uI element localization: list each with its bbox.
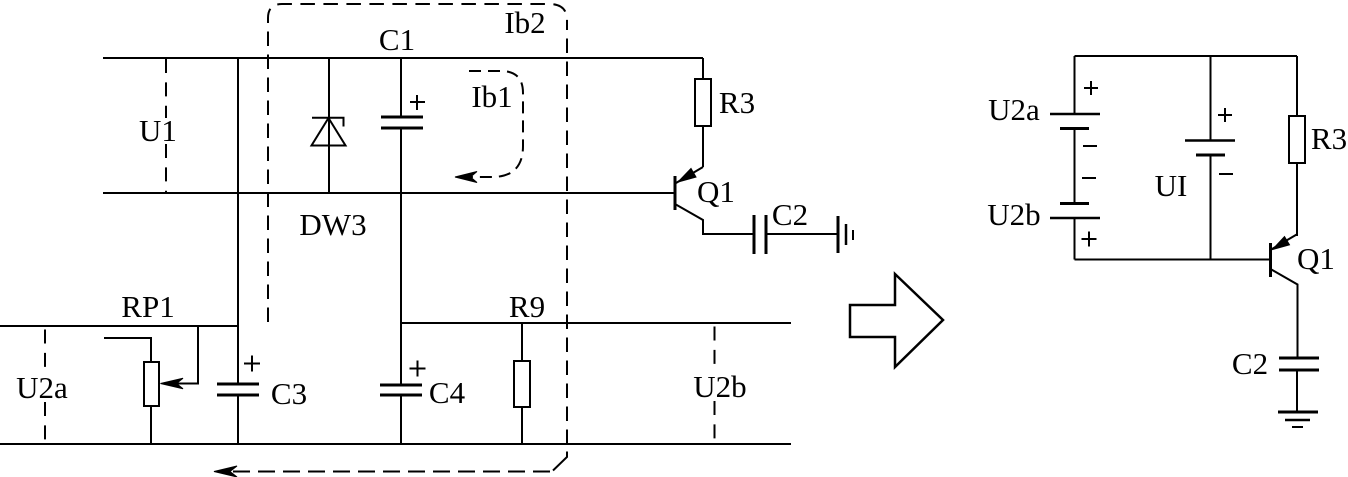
svg-text:Ib1: Ib1 — [471, 79, 512, 114]
battery U2b long plate (right) — [1050, 217, 1100, 220]
capacitor C2 plates (left) — [754, 215, 766, 254]
svg-text:Q1: Q1 — [697, 174, 735, 209]
svg-text:U2b: U2b — [987, 197, 1040, 232]
battery UI minus mark — [1219, 173, 1233, 175]
node Ib2 loop corner below bottom rail — [553, 452, 567, 471]
svg-text:R3: R3 — [1311, 121, 1347, 156]
node Ib2 return arrowhead — [214, 466, 237, 477]
node Ib2 dashed loop right edge — [566, 20, 568, 444]
svg-text:DW3: DW3 — [299, 207, 366, 242]
battery UI short plate — [1196, 154, 1225, 157]
svg-text:U1: U1 — [139, 113, 177, 148]
capacitor C2 plates (right) — [1279, 358, 1319, 370]
wire R3 bottom lead to Q1 collector — [702, 126, 704, 167]
transistor Q1 base bar (right, PNP) — [1269, 243, 1272, 277]
svg-text:UI: UI — [1155, 168, 1188, 203]
node Ib2 bottom dashed return line — [228, 471, 550, 473]
transistor Q1 collector diagonal (right) — [1272, 234, 1298, 249]
wire bottom rail (right circuit) — [1075, 259, 1270, 261]
potentiometer RP1 wiper arrowhead — [161, 378, 184, 389]
wire C2 to ground (right) — [1296, 371, 1298, 412]
transistor Q1 emitter lead (right) — [1271, 269, 1298, 358]
node Ib2 dashed loop box top and sides — [268, 4, 567, 322]
wire middle rail / base net (left circuit) — [103, 192, 674, 194]
wire R9 top lead — [521, 323, 523, 361]
ground middle bar (left) — [845, 224, 848, 245]
node Ib1 arrowhead — [455, 172, 477, 183]
ground top bar (right) — [1278, 411, 1318, 414]
node U2a dashed measurement line (left) — [44, 330, 46, 445]
wire C4 branch bottom — [400, 396, 402, 444]
potentiometer RP1 bottom lead — [150, 406, 152, 444]
svg-text:C4: C4 — [429, 375, 466, 410]
wire bottom return rail (left circuit) — [0, 443, 791, 445]
svg-text:Ib2: Ib2 — [504, 5, 545, 40]
capacitor C4 plates — [380, 385, 422, 395]
battery U2a plus mark — [1084, 81, 1098, 95]
wire UI branch bottom — [1210, 155, 1212, 260]
svg-text:R9: R9 — [509, 289, 545, 324]
svg-text:C3: C3 — [271, 376, 307, 411]
wire R3 top lead (right) — [1296, 56, 1298, 116]
wire C2 to ground (left) — [767, 233, 837, 235]
battery U2a minus mark — [1083, 145, 1097, 147]
svg-text:C2: C2 — [1232, 346, 1268, 381]
wire C1 branch top — [400, 58, 402, 117]
ground long bar (left, sideways) — [837, 216, 840, 253]
wire lower rail right segment (R9 net) — [401, 322, 791, 324]
resistor R3 (right) — [1289, 116, 1305, 163]
ground middle bar (right) — [1285, 419, 1310, 422]
svg-text:C1: C1 — [379, 22, 415, 57]
node U1 dashed measurement line — [165, 59, 167, 193]
wire battery branch (right circuit) — [1074, 56, 1076, 260]
ground short bar (right) — [1292, 426, 1303, 428]
wire R3 bottom lead to Q1 collector (right) — [1296, 163, 1298, 236]
wire R3 top lead (left) — [702, 58, 704, 79]
wire C4 branch top — [400, 193, 402, 385]
transistor Q1 base bar (left, PNP) — [674, 176, 677, 210]
svg-text:R3: R3 — [719, 85, 755, 120]
svg-text:U2a: U2a — [988, 92, 1040, 127]
potentiometer RP1 body — [144, 362, 159, 406]
svg-text:Q1: Q1 — [1297, 241, 1335, 276]
resistor R9 — [514, 361, 530, 407]
potentiometer RP1 top terminal stub — [104, 338, 151, 362]
node Ib1 dashed current loop — [469, 71, 523, 177]
resistor R3 (left) — [695, 79, 711, 126]
battery U2b plus mark — [1082, 232, 1097, 247]
battery U2b minus mark — [1082, 177, 1096, 179]
transistor Q1 emitter lead and output wire (left) — [675, 204, 753, 234]
C1 plus polarity mark — [410, 95, 425, 110]
wire top rail (right circuit) — [1075, 55, 1298, 57]
transistor Q1 emitter arrowhead (left) — [678, 169, 696, 183]
potentiometer RP1 wiper wire — [168, 326, 198, 384]
big block arrow between circuits — [850, 274, 943, 367]
ground short bar (left) — [852, 230, 854, 240]
svg-text:U2b: U2b — [693, 369, 746, 404]
C3 plus polarity mark — [244, 356, 260, 372]
capacitor C1 plates — [381, 117, 423, 128]
battery U2b short plate (right) — [1060, 202, 1089, 205]
wire R9 bottom lead — [521, 407, 523, 444]
wire vertical bus through C3 — [237, 58, 239, 444]
wire UI branch top — [1210, 56, 1212, 141]
wire C1 branch bottom — [400, 129, 402, 193]
C4 plus polarity mark — [410, 361, 426, 377]
transistor Q1 collector diagonal (left) — [676, 167, 703, 183]
wire top supply rail (left circuit) — [103, 57, 703, 59]
svg-text:C2: C2 — [772, 197, 808, 232]
node U2b dashed measurement line (left) — [714, 327, 716, 445]
capacitor C3 plates — [217, 384, 259, 395]
battery UI long plate — [1185, 139, 1235, 142]
wire lower rail left segment (RP1 net) — [0, 325, 238, 327]
battery U2a long plate (right) — [1050, 113, 1100, 116]
svg-text:RP1: RP1 — [121, 289, 174, 324]
svg-text:U2a: U2a — [16, 370, 68, 405]
transistor Q1 emitter arrowhead (right) — [1273, 237, 1290, 250]
battery UI plus mark — [1218, 108, 1232, 122]
diode DW3 (zener) — [312, 118, 346, 146]
battery U2a short plate (right) — [1060, 127, 1089, 130]
wire zener branch (passes through symbol) — [328, 58, 330, 193]
